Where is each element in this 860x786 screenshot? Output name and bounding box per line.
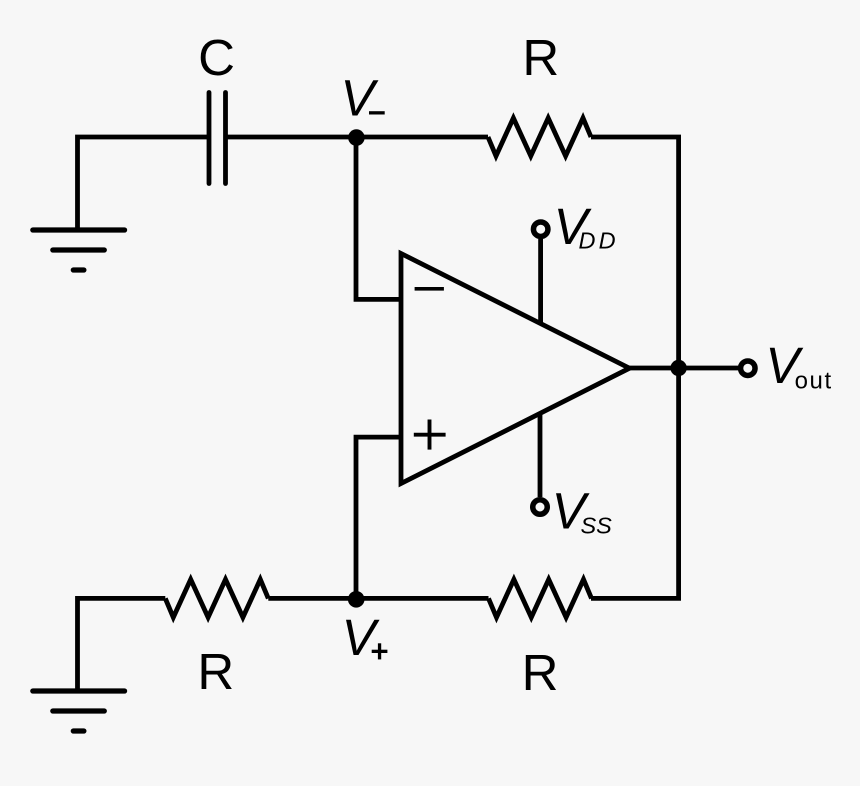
wire [538, 239, 543, 324]
ground [33, 230, 125, 270]
wire [356, 596, 489, 601]
capacitor C [209, 93, 226, 184]
resistor R2 [165, 579, 268, 617]
label Vout [765, 337, 832, 394]
terminal VSS [533, 500, 548, 515]
node Vout [670, 360, 686, 376]
wire [630, 366, 742, 371]
svg-text:R: R [522, 644, 559, 701]
svg-text:out: out [795, 368, 833, 395]
wire [356, 437, 401, 598]
svg-text:V: V [341, 70, 379, 127]
node V+ [348, 591, 365, 608]
op-amp U1 [401, 254, 630, 484]
label V- [341, 70, 385, 127]
resistor R3 [489, 579, 592, 617]
resistor R1 [488, 118, 591, 156]
wire [356, 135, 488, 140]
label V+ [342, 609, 388, 666]
wire [78, 598, 166, 691]
wire [226, 135, 357, 140]
wire [356, 137, 401, 299]
terminal VDD [533, 222, 548, 237]
wire [538, 412, 543, 497]
wire [268, 596, 356, 601]
svg-text:V: V [342, 609, 380, 666]
svg-text:DD: DD [579, 228, 619, 254]
wire [591, 368, 679, 598]
terminal Vout [741, 361, 756, 376]
wire [78, 137, 210, 230]
wire [591, 137, 679, 368]
ground [33, 691, 125, 731]
label VDD [554, 198, 619, 255]
op-amp minus symbol [415, 287, 444, 291]
node V- [348, 129, 365, 146]
label VSS [552, 483, 613, 540]
svg-text:SS: SS [581, 513, 613, 539]
op-amp plus symbol [414, 420, 446, 450]
svg-text:R: R [197, 643, 234, 700]
svg-text:R: R [522, 29, 559, 86]
svg-text:C: C [198, 29, 235, 86]
